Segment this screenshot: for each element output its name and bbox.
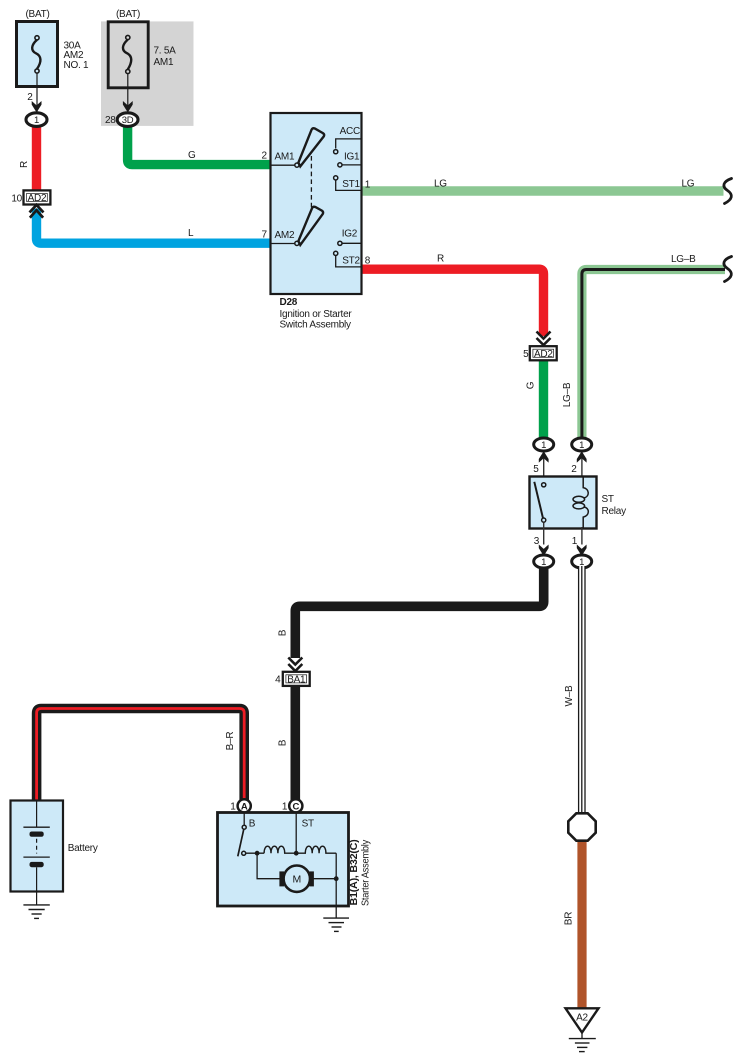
right side down to ground (335, 853, 337, 918)
junction dot left (255, 851, 260, 856)
connector oval 1 (26, 113, 47, 127)
battery cells dashed link (36, 839, 38, 854)
continuation squiggle LG-B (724, 257, 732, 282)
wire W-B black edges and stripe (578, 566, 580, 814)
ignition switch D28 box (271, 113, 362, 294)
harness arrow into connector 3D (123, 101, 133, 113)
svg-text:(BAT): (BAT) (116, 9, 140, 20)
svg-text:AM1: AM1 (154, 57, 175, 68)
svg-text:Battery: Battery (68, 843, 98, 854)
starter switch lever (238, 830, 244, 857)
lead C to coil junction (295, 813, 297, 854)
svg-text:W–B: W–B (564, 685, 575, 707)
svg-text:ACC: ACC (340, 126, 360, 137)
svg-text:AD2: AD2 (28, 193, 47, 204)
svg-text:AM2: AM2 (275, 230, 296, 241)
battery box (11, 801, 64, 892)
IG1 contact (338, 163, 342, 167)
wire W-B white body (578, 566, 585, 814)
svg-text:IG2: IG2 (342, 229, 358, 240)
svg-text:Ignition or Starter: Ignition or Starter (280, 309, 353, 320)
lead from fuse AM2 to connector (36, 73, 38, 112)
svg-text:1: 1 (230, 801, 236, 812)
svg-text:NO. 1: NO. 1 (64, 60, 90, 71)
double chevron down into BA1 (288, 658, 302, 665)
svg-text:1: 1 (541, 440, 546, 451)
junction dot right (334, 876, 339, 881)
svg-text:B: B (277, 739, 288, 746)
terminal circle C (289, 799, 302, 812)
svg-text:Starter Assembly: Starter Assembly (360, 840, 371, 906)
svg-text:28: 28 (105, 115, 116, 126)
svg-text:A2: A2 (576, 1013, 588, 1024)
svg-text:AD2: AD2 (534, 349, 553, 360)
svg-text:1: 1 (572, 536, 578, 547)
AM2 lever wedge (298, 207, 323, 245)
AM2 contact line (271, 243, 295, 245)
relay lever (534, 482, 543, 518)
svg-text:C: C (292, 801, 299, 812)
continuation squiggle LG (724, 179, 732, 204)
svg-text:B: B (249, 818, 256, 829)
connector oval 1 (relay pin1 bottom) (572, 555, 592, 568)
connector oval 3D (117, 113, 138, 127)
svg-text:D28: D28 (280, 297, 298, 308)
svg-text:1: 1 (541, 557, 546, 568)
svg-text:L: L (188, 228, 194, 239)
left brush bar (279, 871, 284, 886)
starter assembly box (218, 813, 349, 907)
svg-text:2: 2 (571, 464, 577, 475)
svg-text:2: 2 (261, 150, 267, 161)
svg-text:LG–B: LG–B (562, 382, 573, 407)
relay contact top (542, 483, 546, 487)
battery cell 1 plates (23, 826, 49, 828)
fuse AM1 box (108, 22, 148, 88)
ST2 contact (334, 251, 338, 255)
svg-text:BA1: BA1 (287, 674, 306, 685)
battery cell 2 plates (23, 856, 49, 858)
hold-in coil (296, 846, 336, 853)
svg-text:A: A (241, 801, 248, 812)
junction dot center (294, 851, 299, 856)
ACC contact (334, 150, 338, 154)
IG2 contact (338, 241, 342, 245)
svg-text:1: 1 (365, 179, 371, 190)
svg-text:ST2: ST2 (342, 255, 360, 266)
wire LG-B black stripe (582, 270, 725, 442)
svg-text:AM1: AM1 (275, 152, 296, 163)
relay coil (583, 477, 588, 529)
wire BR (brown) octagon to A2 ground (577, 840, 586, 1010)
svg-text:1: 1 (34, 115, 39, 126)
svg-text:1: 1 (282, 801, 288, 812)
harness arrow down pin 3 (539, 545, 549, 557)
wire R (red) fuse AM2 to connector 1 (32, 125, 41, 192)
fuse AM1 element (123, 40, 131, 70)
contact to junction line (246, 852, 264, 854)
wire LG-B light green body (582, 270, 725, 442)
wire G from AD2 (5) to ST relay pin 5 (539, 359, 548, 440)
right brush bar (309, 871, 314, 886)
svg-text:LG: LG (434, 178, 447, 189)
svg-text:G: G (526, 381, 537, 389)
connector oval 1 (relay pin5 top) (534, 438, 554, 451)
harness arrow down pin 1 (577, 545, 587, 557)
lead from fuse AM1 to connector (127, 74, 129, 113)
svg-text:ST: ST (302, 818, 314, 829)
svg-text:B1(A), B32(C): B1(A), B32(C) (349, 840, 360, 906)
lead A to B contact (243, 813, 245, 826)
ground symbol starter (323, 917, 349, 919)
wire L (blue) from AD2 to AM2 pin 7 (37, 209, 271, 244)
lead into relay pin 5 (543, 452, 545, 483)
wire B-R red stripe (37, 709, 245, 802)
svg-text:4: 4 (275, 675, 281, 686)
svg-text:5: 5 (523, 349, 529, 360)
svg-text:M: M (293, 874, 302, 886)
svg-text:7: 7 (261, 230, 267, 241)
fuse AM2 element (32, 40, 40, 69)
svg-text:G: G (188, 150, 196, 161)
svg-text:BR: BR (563, 912, 574, 925)
gray panel behind fuse AM1 (101, 21, 194, 126)
wire B (black) ST relay pin 3 to BA1 (295, 566, 543, 658)
svg-text:2: 2 (27, 92, 33, 103)
fuse AM2 NO.1 box (17, 22, 58, 87)
connector box AD2 pin 5 (530, 346, 557, 360)
wire B (black) BA1 to starter C terminal (290, 685, 300, 800)
harness arrow into connector 1 (32, 101, 42, 113)
motor M (284, 866, 310, 892)
left branch to motor brush (257, 853, 280, 879)
svg-text:B: B (277, 629, 288, 636)
svg-text:8: 8 (365, 255, 371, 266)
battery negative lead (36, 867, 38, 905)
harness arrow up pin 5 (539, 451, 549, 463)
B contact (242, 825, 246, 829)
svg-text:Switch Assembly: Switch Assembly (280, 320, 352, 331)
connector box AD2 pin 10 (24, 190, 51, 204)
svg-text:LG: LG (682, 178, 695, 189)
svg-text:Relay: Relay (602, 506, 627, 517)
connector oval 1 (relay pin3 bottom) (534, 555, 554, 568)
AM1 contact line (271, 164, 295, 166)
double chevron down into AD2 (5) (537, 332, 551, 339)
octagon splice node (568, 813, 595, 840)
pull-in coil (264, 846, 296, 853)
svg-text:10: 10 (11, 193, 22, 204)
lead into relay pin 2 (581, 452, 583, 478)
svg-text:(BAT): (BAT) (25, 9, 49, 20)
svg-text:7. 5A: 7. 5A (154, 46, 177, 57)
connector box BA1 pin 4 (283, 672, 310, 686)
double chevron up below AD2 (30, 205, 44, 213)
AM1 pivot (295, 163, 299, 167)
svg-text:3: 3 (534, 536, 540, 547)
right brush to junction (314, 878, 337, 880)
svg-text:IG1: IG1 (344, 152, 360, 163)
ground triangle A2 (566, 1008, 599, 1032)
svg-text:5: 5 (533, 464, 539, 475)
wire B-R black body battery to starter A terminal (37, 709, 245, 802)
battery positive lead (36, 801, 38, 827)
ground symbol battery (23, 904, 49, 906)
wire R from ST2 pin 8 (362, 269, 544, 336)
ST1 contact (334, 176, 338, 180)
svg-text:3D: 3D (122, 115, 134, 126)
ACC bracket (336, 139, 362, 149)
svg-text:ST: ST (602, 494, 614, 505)
AM1 lever wedge (298, 128, 324, 166)
svg-text:B–R: B–R (225, 732, 236, 751)
ST relay box (530, 477, 597, 529)
mechanical link dashed line (310, 156, 312, 209)
wire LG from ST1 pin 1 (362, 186, 724, 195)
relay contact bottom (542, 518, 546, 522)
svg-text:R: R (437, 253, 444, 264)
terminal circle A (238, 799, 251, 812)
connector oval 1 (relay pin2 top) (572, 438, 592, 451)
svg-text:R: R (19, 161, 30, 168)
wire G (green) from 3D connector to AM1 pin 2 (128, 124, 271, 165)
svg-text:ST1: ST1 (342, 179, 360, 190)
harness arrow up pin 2 (577, 451, 587, 463)
fixed contact (242, 851, 246, 855)
ground symbol A2 (581, 1033, 583, 1039)
svg-text:1: 1 (579, 440, 584, 451)
AM2 pivot (295, 241, 299, 245)
svg-text:LG–B: LG–B (671, 254, 696, 265)
